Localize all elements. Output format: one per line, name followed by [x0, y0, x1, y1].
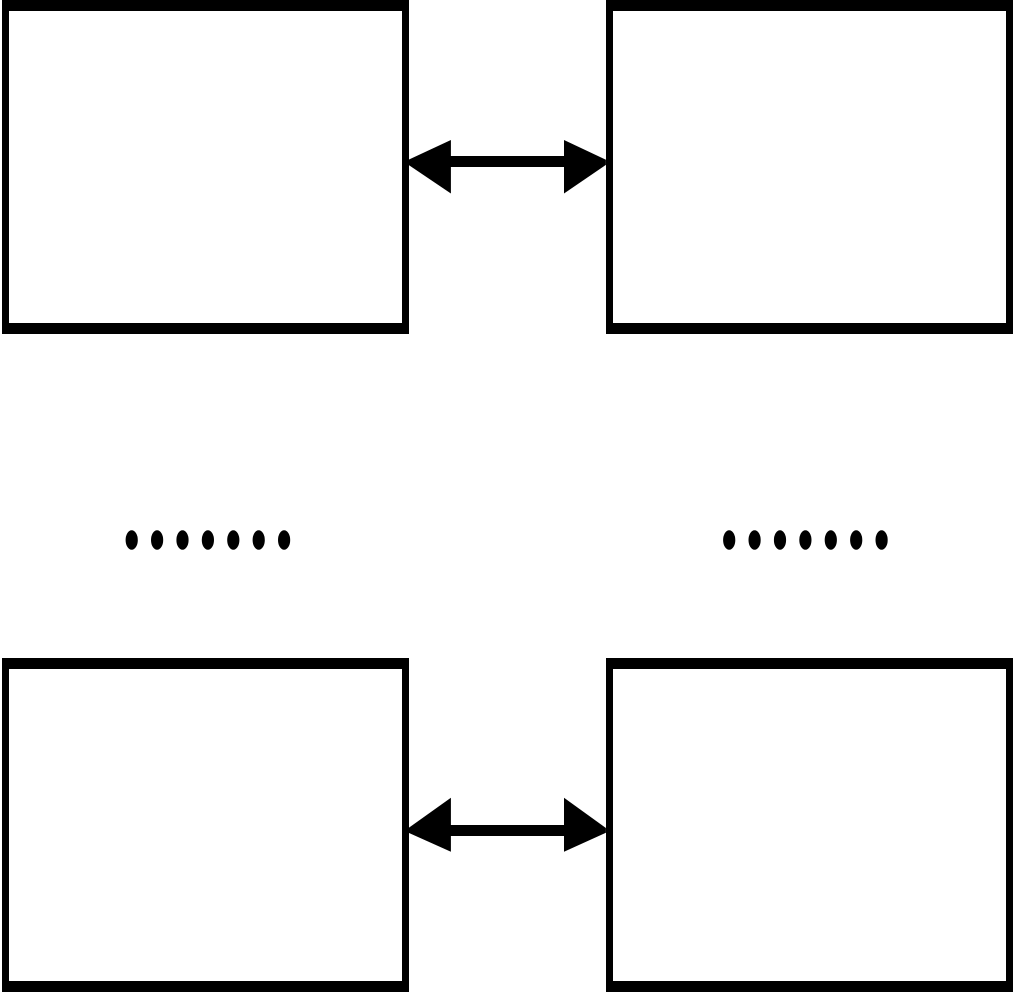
ellipsis dots (left column) — [126, 530, 291, 550]
node box C (bottom-left) — [2, 658, 409, 992]
node box D (bottom-right) — [606, 658, 1013, 992]
shaft — [450, 825, 565, 836]
ellipsis dots (right column) — [723, 530, 888, 550]
node box A (top-left) — [2, 0, 409, 334]
left arrowhead — [409, 798, 451, 852]
left arrowhead — [409, 140, 451, 194]
shaft — [450, 156, 565, 167]
right arrowhead — [564, 140, 606, 194]
node box B (top-right) — [606, 0, 1013, 334]
right arrowhead — [564, 798, 606, 852]
double-headed arrow between box C and box D — [409, 798, 606, 852]
double-headed arrow between box A and box B — [409, 140, 606, 194]
